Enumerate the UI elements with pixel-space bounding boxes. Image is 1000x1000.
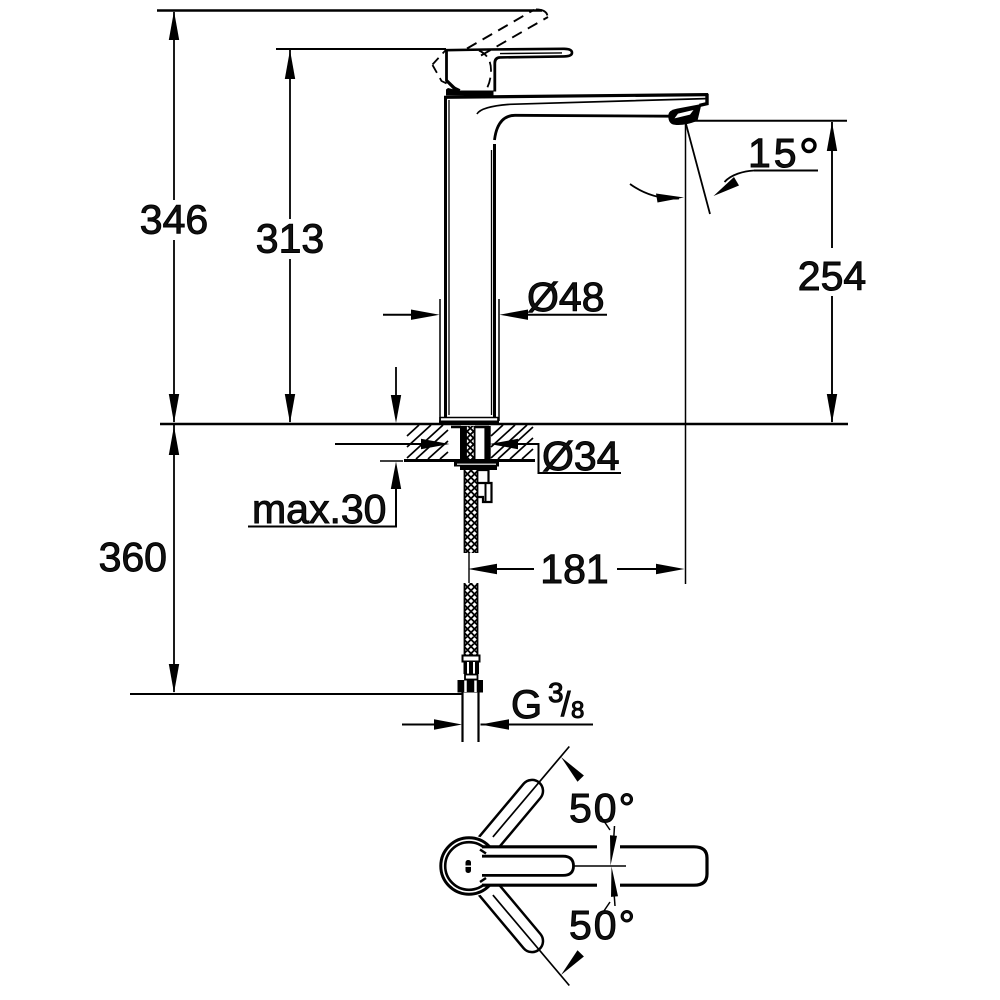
raised handle dashed bottom edge xyxy=(433,65,468,94)
hose end collar xyxy=(463,656,480,662)
svg-text:50°: 50° xyxy=(569,902,637,948)
mounting ticks xyxy=(451,426,461,429)
dimension D48 right extension line xyxy=(498,299,500,421)
flexible hose lower segment xyxy=(465,570,478,667)
dimension max30 lower arrow up xyxy=(391,462,401,490)
top view 50deg lower arc arrow xyxy=(561,950,584,975)
faucet body right edge xyxy=(493,144,496,417)
dimension G3/8 left arrow xyxy=(434,719,462,729)
dimension 15deg underline xyxy=(754,170,818,172)
hose connector step xyxy=(465,675,478,680)
hose knurled connector xyxy=(464,662,480,675)
svg-text:254: 254 xyxy=(798,253,866,299)
spout right end edge xyxy=(700,94,708,106)
dimension 15deg leader xyxy=(725,171,755,183)
spout chamfer inner line xyxy=(477,99,706,114)
handle base dark band xyxy=(446,88,494,96)
countertop hatch left xyxy=(407,425,448,459)
dimension max30 leader xyxy=(248,483,396,527)
dimension D48 left leader xyxy=(383,314,412,316)
extension line bottom of 360 (hose end level) xyxy=(130,693,462,695)
dimension D34 left leader xyxy=(335,443,421,445)
dimension D34 left arrow xyxy=(421,439,450,449)
svg-text:8: 8 xyxy=(571,697,584,724)
dimension max30 upper extension xyxy=(395,367,397,401)
spout top edge xyxy=(444,95,708,98)
upper label leader xyxy=(601,816,611,830)
raised handle dashed outline upper xyxy=(467,10,534,49)
handle lever inner line xyxy=(500,52,562,55)
svg-text:Ø48: Ø48 xyxy=(527,274,605,320)
top view body inner ring xyxy=(445,842,493,890)
dimension G3/8 left line xyxy=(402,724,434,726)
check valve fitting xyxy=(478,470,492,502)
raised handle dashed tip xyxy=(536,9,548,17)
dimension D48 left extension line xyxy=(439,299,441,421)
dimension 360 arrow up xyxy=(169,426,179,455)
raised handle dashed outline lower xyxy=(481,17,548,56)
dimension 181 right arrow xyxy=(656,564,685,574)
svg-text:G: G xyxy=(511,683,542,727)
dimension D48 right leader xyxy=(528,314,607,316)
svg-text:181: 181 xyxy=(540,546,608,592)
top view 50deg lower reference line xyxy=(493,895,569,985)
dimension 254 line xyxy=(831,122,833,248)
top view spout outline xyxy=(482,847,707,885)
raised handle dashed pivot arc xyxy=(479,51,491,90)
dimension 313 line xyxy=(289,50,291,219)
top view 50deg upper arc arrow xyxy=(561,757,584,782)
spray arc arrow xyxy=(630,184,679,199)
handle housing top edge xyxy=(445,48,487,51)
deck bottom tick xyxy=(380,460,403,462)
deck / counter top line xyxy=(160,423,848,426)
top view body circle white mask xyxy=(438,835,500,897)
countertop hatch right xyxy=(491,425,533,459)
top view lever outline xyxy=(482,856,574,875)
dimension D48 right arrow xyxy=(500,310,529,320)
dimension 360 line xyxy=(173,425,175,692)
dimension 346 arrow up xyxy=(169,11,179,40)
spout underside line xyxy=(495,115,670,140)
lower label leader xyxy=(601,902,611,916)
dimension 346 line xyxy=(173,12,175,200)
washer plate xyxy=(454,462,499,467)
mounting hole right bar xyxy=(484,426,490,459)
threaded shank upper xyxy=(466,417,475,465)
svg-text:/: / xyxy=(561,686,571,724)
top view rotated lever up 50deg xyxy=(476,775,547,854)
top view centerline xyxy=(574,865,627,867)
dimension 181 right line xyxy=(617,568,656,570)
handle lever bar top edge xyxy=(487,49,572,58)
dimension 254 arrow down xyxy=(827,394,837,423)
top view spout fill xyxy=(482,847,707,885)
svg-text:max.30: max.30 xyxy=(252,486,386,532)
handle lever neck xyxy=(495,57,500,91)
dimension 181 left arrow xyxy=(468,564,497,574)
svg-text:313: 313 xyxy=(256,216,324,262)
dimension 181 left line xyxy=(497,568,534,570)
handle cartridge housing xyxy=(447,50,458,93)
svg-text:346: 346 xyxy=(140,197,208,243)
dimension 313 arrow up xyxy=(285,50,295,79)
faucet base flange xyxy=(440,417,498,423)
faucet body left inner line xyxy=(448,100,450,415)
flexible hose break centerline xyxy=(468,553,470,583)
faucet body right inner line xyxy=(491,150,493,415)
aerator nozzle xyxy=(668,104,701,125)
lower slim arrow xyxy=(611,867,618,897)
svg-text:360: 360 xyxy=(99,534,167,580)
G3/8 nut xyxy=(458,680,484,693)
mounting hole left bar xyxy=(460,426,466,459)
aerator vertical reference line xyxy=(685,124,687,584)
lock nut xyxy=(460,467,497,471)
faucet body left edge xyxy=(444,97,447,417)
svg-text:50°: 50° xyxy=(569,785,637,831)
dimension max30 upper arrow down xyxy=(391,395,401,423)
countertop bottom line xyxy=(404,459,535,462)
extension line 313 (handle top) xyxy=(276,48,446,50)
connection tube left edge xyxy=(461,693,463,743)
svg-text:Ø34: Ø34 xyxy=(542,433,620,479)
dimension D34 right arrow xyxy=(490,439,519,449)
dimension G3/8 right arrow xyxy=(481,719,510,729)
dimension D48 left arrow xyxy=(411,310,440,320)
flexible hose upper segment xyxy=(465,457,478,561)
top view 50deg upper reference line xyxy=(493,747,569,837)
spray angle reference line 15deg xyxy=(686,124,710,214)
svg-text:15: 15 xyxy=(748,130,800,176)
handle housing slant line xyxy=(447,81,459,92)
dimension 313 arrow down xyxy=(285,394,295,423)
raised handle dashed left edge xyxy=(433,50,447,65)
dimension 254 arrow up xyxy=(827,122,837,151)
top view GROHE logo xyxy=(466,860,472,873)
dimension 346 arrow down xyxy=(169,394,179,423)
dimension D34 right leader xyxy=(518,444,621,473)
extension line top (346 max height) xyxy=(157,9,542,11)
connection tube right edge xyxy=(477,693,479,743)
top view circle ticks xyxy=(480,850,486,854)
aerator height reference line xyxy=(690,120,847,122)
top view rotated lever down 50deg xyxy=(476,877,547,956)
top view body outer ring xyxy=(441,838,497,894)
upper slim arrow xyxy=(610,835,617,865)
dimension 360 arrow down xyxy=(169,664,179,693)
dimension G3/8 underline xyxy=(481,724,594,726)
